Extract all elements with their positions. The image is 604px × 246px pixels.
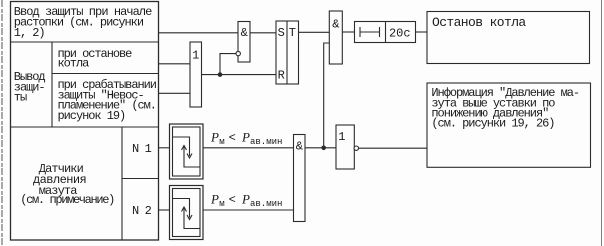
svg-text:ты: ты: [14, 91, 27, 105]
flip-flop U3 box: [276, 21, 299, 84]
comparator 1 hysteresis upper stroke: [173, 137, 190, 156]
comparator 1 lower stroke: [184, 147, 200, 168]
or-gate U6 box: [336, 125, 354, 169]
label: Вывод защиты: [14, 70, 46, 105]
comparator 2 hysteresis upper stroke: [173, 199, 190, 218]
delay symbol bar: [360, 31, 380, 33]
svg-text:ав.мин: ав.мин: [250, 199, 282, 209]
scan edge right: [601, 0, 603, 246]
svg-text:м: м: [219, 137, 224, 147]
wire: OR2 output to Информация box: [359, 147, 428, 149]
svg-text:<: <: [229, 131, 236, 145]
comparator 1 outer box: [170, 124, 204, 179]
delay symbol right tick: [379, 27, 381, 37]
label: при останове котла: [58, 47, 133, 70]
svg-text:(см. рисунки 19, 26): (см. рисунки 19, 26): [431, 117, 554, 131]
svg-text:котла: котла: [58, 56, 90, 70]
label Pм < Pав.мин (upper): [210, 130, 282, 147]
output box Информация: [427, 83, 591, 167]
output box Останов котла: [427, 12, 590, 64]
comparator 1 down arrowhead: [187, 154, 192, 159]
label Информация Давление мазута: [431, 86, 579, 131]
svg-text:&: &: [332, 18, 339, 32]
wire: table N1 to comparator 1: [159, 147, 170, 149]
svg-text:1, 2): 1, 2): [14, 26, 45, 40]
inverted output bubble of U6: [354, 146, 358, 150]
wire: row2a to OR1: [159, 63, 191, 65]
table inner vertical (Вывод): [51, 42, 53, 127]
svg-text:1: 1: [338, 130, 345, 144]
svg-text:(см. примечание): (см. примечание): [20, 193, 114, 207]
delay symbol left tick: [359, 27, 361, 37]
scan edge left: [1, 0, 3, 246]
and-gate U4 box: [329, 11, 342, 64]
wire: AND3 output to OR2: [305, 147, 336, 149]
wire: AND2 output to delay: [342, 31, 354, 33]
svg-text:Останов котла: Останов котла: [432, 15, 526, 30]
svg-text:P: P: [241, 192, 250, 207]
inverted input bubble of U2: [236, 51, 240, 55]
wire: delay output to Останов котла: [416, 31, 428, 33]
node junction B: [321, 146, 326, 151]
wire: OR1 output to R input: [202, 74, 277, 76]
svg-text:ав.мин: ав.мин: [250, 137, 282, 147]
delay element box: [355, 22, 416, 43]
table divider below row 1: [11, 41, 159, 43]
svg-text:1: 1: [192, 49, 199, 63]
svg-text:P: P: [210, 130, 219, 145]
label: Ввод защиты при начале растопки: [14, 5, 152, 40]
comparator 2 outer box: [170, 186, 204, 240]
svg-text:N 1: N 1: [132, 142, 152, 156]
flip-flop U3 S/T divider: [286, 21, 288, 84]
delay element divider: [385, 22, 387, 43]
comparator 2 inner box: [173, 189, 201, 237]
comparator 2 lower stroke: [184, 208, 200, 229]
table inner vertical (N cells): [121, 127, 123, 240]
svg-text:<: <: [229, 193, 236, 207]
wire: row1 to AND1: [159, 32, 239, 34]
svg-text:T: T: [289, 26, 296, 40]
table divider between N1/N2: [122, 178, 159, 180]
comparator 2 down arrowhead: [187, 215, 192, 220]
svg-text:рисунок 19): рисунок 19): [58, 109, 126, 123]
and-gate U2 box: [238, 22, 250, 63]
wire: AND1 output to S input: [250, 32, 276, 34]
label: Датчики давления мазута: [20, 162, 114, 207]
svg-text:R: R: [278, 68, 285, 82]
comparator 1 up arrowhead: [182, 146, 187, 151]
svg-text:&: &: [241, 26, 248, 40]
wire: junction B up to AND2 second input: [324, 43, 330, 148]
wire: row2b to OR1: [159, 92, 191, 94]
svg-text:N 2: N 2: [132, 204, 152, 218]
wire: comparator 2 to AND3: [203, 209, 294, 211]
node junction A: [218, 72, 223, 77]
wire: T output to AND2: [299, 31, 330, 33]
table outer box: [11, 2, 159, 241]
svg-text:м: м: [219, 199, 224, 209]
svg-text:S: S: [278, 26, 285, 40]
label Pм < Pав.мин (lower): [210, 192, 282, 209]
svg-text:P: P: [241, 130, 250, 145]
wire: comparator 1 to AND3: [203, 147, 294, 149]
wire: junction A up to AND1 inverted input: [220, 54, 236, 75]
wire: table N2 to comparator 2: [159, 209, 170, 211]
comparator 1 inner box: [173, 127, 201, 176]
svg-text:P: P: [210, 192, 219, 207]
svg-text:&: &: [296, 140, 303, 154]
comparator 2 up arrowhead: [182, 207, 187, 212]
label: при срабатывании защиты Невоспламенение: [58, 78, 157, 123]
or-gate U1 box: [190, 42, 202, 107]
table divider below row 2: [11, 126, 159, 128]
table divider between rows 2a/2b: [52, 73, 159, 75]
and-gate U5 box: [294, 135, 306, 222]
svg-text:20с: 20с: [389, 27, 411, 41]
